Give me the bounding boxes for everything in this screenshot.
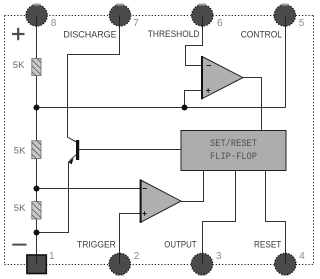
resistor R3 5K xyxy=(32,202,41,220)
svg-text:5K: 5K xyxy=(14,203,26,214)
svg-text:7: 7 xyxy=(133,18,139,29)
svg-text:OUTPUT: OUTPUT xyxy=(164,239,196,250)
wire: R3 to ground node C xyxy=(36,219,38,233)
wire: node A rail up to U1 non-inverting input xyxy=(185,91,203,108)
flip-flop U3 (SET/RESET) xyxy=(181,131,286,171)
transistor Q1 (discharge) xyxy=(68,140,79,164)
wire: pin8 to resistor R1 xyxy=(36,15,38,59)
wire: ground node C to pin 1 xyxy=(36,233,38,265)
wire: pin 7 discharge to transistor collector xyxy=(68,15,120,137)
wire: R1 to node A xyxy=(36,75,38,108)
svg-text:TRIGGER: TRIGGER xyxy=(77,239,116,250)
wire: 2/3 Vcc rail (node A to control pin wire) xyxy=(37,107,286,109)
svg-text:5: 5 xyxy=(299,18,305,29)
svg-text:4: 4 xyxy=(299,251,305,262)
wire: 1/3 Vcc rail (node B to comparator U2 inverting input) xyxy=(37,188,141,190)
pin 8 V+ pad xyxy=(26,4,47,26)
svg-text:5K: 5K xyxy=(13,60,25,71)
comparator U1 (threshold) xyxy=(202,56,243,99)
svg-text:2: 2 xyxy=(134,251,140,262)
pin 7 pad xyxy=(109,4,130,26)
svg-text:CONTROL: CONTROL xyxy=(241,29,282,40)
svg-text:DISCHARGE: DISCHARGE xyxy=(63,29,116,40)
wire: pin 2 trigger to U2 non-inverting input xyxy=(120,214,141,265)
pin 5 pad xyxy=(274,4,295,26)
svg-text:FLIP-FLOP: FLIP-FLOP xyxy=(210,152,257,163)
wire: R2 to node B xyxy=(36,159,38,189)
pin 2 pad xyxy=(109,253,130,276)
svg-text:RESET: RESET xyxy=(254,239,281,250)
wire: node B to R3 xyxy=(36,189,38,202)
resistor R1 5K xyxy=(32,59,41,76)
GND minus symbol xyxy=(12,244,26,246)
junction node B (1/3 Vcc divider tap) xyxy=(34,186,40,192)
svg-text:6: 6 xyxy=(217,18,223,29)
junction node C (ground tap) xyxy=(34,230,40,236)
resistor R2 5K xyxy=(32,141,41,159)
svg-text:5K: 5K xyxy=(14,146,26,157)
svg-text:THRESHOLD: THRESHOLD xyxy=(148,29,200,40)
pin 3 pad xyxy=(191,253,212,276)
wire: pin 6 threshold to U1 inverting input xyxy=(186,15,203,65)
junction node A2 (+input riser on rail) xyxy=(182,105,188,111)
wire: U1 output to flip-flop top xyxy=(243,78,262,131)
svg-text:8: 8 xyxy=(51,18,57,29)
svg-text:SET/RESET: SET/RESET xyxy=(210,138,257,150)
wire: collector diagonal into Q1 xyxy=(68,137,77,142)
wire: emitter of Q1 down to ground node C xyxy=(37,162,69,233)
pin 1 ground pad (square) xyxy=(27,253,46,274)
svg-text:1: 1 xyxy=(49,251,55,262)
wire: node A to R2 xyxy=(36,108,38,142)
wire: flip-flop to pin 3 output xyxy=(203,171,236,264)
pin 6 pad xyxy=(192,4,213,26)
junction node A (2/3 Vcc divider tap) xyxy=(34,105,40,111)
V+ plus symbol xyxy=(12,28,25,40)
wire: flip-flop to pin 4 reset xyxy=(266,171,286,264)
wire: pin 5 control voltage down to rail xyxy=(285,15,287,107)
pin 4 pad xyxy=(275,253,296,276)
svg-text:3: 3 xyxy=(216,251,222,262)
wire: Q1 base to flip-flop left side xyxy=(79,149,181,151)
wire: U2 output to flip-flop bottom xyxy=(181,171,204,202)
comparator U2 (trigger) xyxy=(141,180,181,223)
